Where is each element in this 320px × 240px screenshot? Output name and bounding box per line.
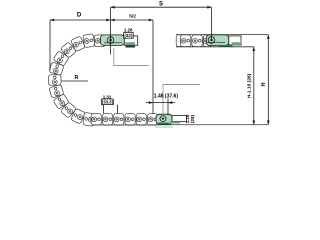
svg-text:H-1.10 (28): H-1.10 (28) [246, 73, 252, 98]
chain link (lower run) 1 [91, 114, 101, 125]
moving-end bracket (extended position) [206, 35, 241, 47]
chain link (bend) 8 [53, 94, 69, 110]
svg-text:S: S [159, 2, 163, 8]
pale base strip under fixed bracket [155, 126, 173, 128]
svg-text:R: R [75, 75, 79, 81]
dimension D / S-2 line [50, 19, 153, 21]
svg-text:1.26: 1.26 [124, 28, 133, 33]
svg-text:(32): (32) [124, 33, 133, 38]
chain link (bend) 4 [53, 51, 69, 67]
chain link (bend) 5 [49, 62, 64, 76]
chain link (upper run) 1 [180, 35, 191, 47]
chain link (lower run) 5 [136, 114, 146, 125]
chain link (lower run) 3 [114, 114, 124, 125]
dimension H-1.10 (28) [253, 47, 255, 125]
moving-end bracket (mid position) [100, 35, 137, 48]
chain link (bend) 2 [71, 36, 86, 52]
dimension H [267, 35, 269, 125]
chain link (bend) 11 [83, 112, 95, 126]
extension line at moving bracket hole [110, 7, 112, 54]
extension lines for 1.31 pitch [103, 105, 105, 114]
chain link (upper run) 2 [192, 35, 203, 47]
extension line at fixed point [152, 20, 154, 114]
R leader [62, 80, 89, 82]
dimension S line [111, 6, 212, 8]
boxed label (33.3) [102, 99, 114, 105]
extension line at extended bracket hole [211, 7, 213, 41]
chain link (bend) 9 [60, 102, 76, 118]
chain link (upper run stub) [95, 35, 106, 47]
svg-text:S/2: S/2 [129, 14, 136, 19]
svg-text:D: D [77, 13, 82, 19]
extension line at arc leftmost [49, 20, 51, 71]
ground line [156, 124, 268, 126]
chain link (lower run) 4 [125, 114, 135, 125]
boxed label (32) [124, 33, 134, 39]
dimension 1.48 line with outside arrows [146, 102, 175, 104]
lower run bottom edge [93, 124, 157, 126]
fixed-end bracket (bottom) [156, 114, 187, 124]
machine edge step (fixed support) [163, 85, 200, 115]
chain link (upper run) 3 [203, 35, 212, 47]
chain link (bend) 10 [71, 108, 86, 124]
svg-text:(28): (28) [190, 114, 195, 123]
svg-text:1.48 (37.6): 1.48 (37.6) [154, 94, 179, 100]
svg-text:H: H [261, 82, 267, 86]
chain end cap (upper run) [176, 35, 184, 47]
chain link (bend) 6 [49, 75, 62, 85]
extension line bracket hole bottom [167, 99, 169, 116]
chain bottom edge + leader to H-1.10 dimension [176, 46, 254, 48]
chain link (bend) 7 [49, 84, 64, 98]
chain link (bend) 1 [83, 34, 95, 48]
svg-text:(33.3): (33.3) [102, 100, 114, 105]
chain link (lower run) 6 [147, 114, 157, 125]
chain link (lower run) 2 [103, 114, 113, 125]
chain top edge + leader to H dimension [176, 34, 268, 36]
machine edge step (moving carriage) [114, 48, 149, 66]
chain link (bend) 3 [60, 42, 76, 58]
